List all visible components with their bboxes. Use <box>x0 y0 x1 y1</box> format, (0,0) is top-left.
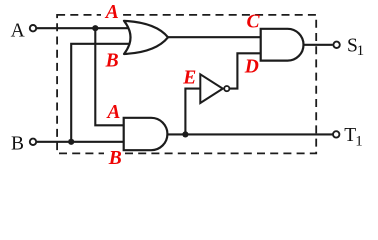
node: junction E on AND1 output <box>182 131 188 137</box>
output terminal S1 <box>333 42 339 48</box>
and-gate AND2 (right, inputs C,D output S1) <box>261 29 304 61</box>
node: junction on A wire <box>92 25 98 31</box>
wire: B junction up and right to OR gate input B <box>71 44 131 142</box>
input terminal B <box>30 139 36 145</box>
wire: input A to OR gate input A <box>37 27 131 29</box>
node: junction on B wire <box>68 139 74 145</box>
dashed enclosure box <box>57 15 316 154</box>
inverter U3 (NOT gate E) <box>200 74 223 103</box>
svg-text:1: 1 <box>355 134 363 150</box>
white break in top dash for label A <box>101 11 123 19</box>
wire: AND1 output to terminal T1 <box>165 133 333 135</box>
svg-text:C: C <box>247 12 261 33</box>
svg-text:E: E <box>182 68 196 89</box>
svg-text:B: B <box>11 133 24 154</box>
and-gate AND1 (bottom, inputs A,B output to T1) <box>124 118 168 150</box>
svg-text:B: B <box>108 148 122 168</box>
svg-text:A: A <box>11 21 25 42</box>
wire: junction E up to inverter input <box>185 89 201 135</box>
white break in bottom dash for label B <box>104 149 125 158</box>
inverter output bubble <box>224 86 229 91</box>
or-gate OR1 (inputs A,B output C) <box>124 21 168 54</box>
svg-text:1: 1 <box>357 43 365 59</box>
svg-text:B: B <box>105 51 119 72</box>
svg-text:A: A <box>104 2 119 23</box>
input terminal A <box>30 25 36 31</box>
svg-text:D: D <box>244 57 259 78</box>
wire: input B to AND1 input B <box>37 141 127 143</box>
output terminal T1 <box>333 131 339 137</box>
wire: A junction down and right to AND1 input A <box>95 28 127 125</box>
svg-text:A: A <box>105 102 120 123</box>
wire: OR output C to AND2 input C <box>165 36 261 38</box>
wire: AND2 output to terminal S1 <box>302 44 333 46</box>
wire: inverter output up to AND2 input D <box>230 53 262 88</box>
